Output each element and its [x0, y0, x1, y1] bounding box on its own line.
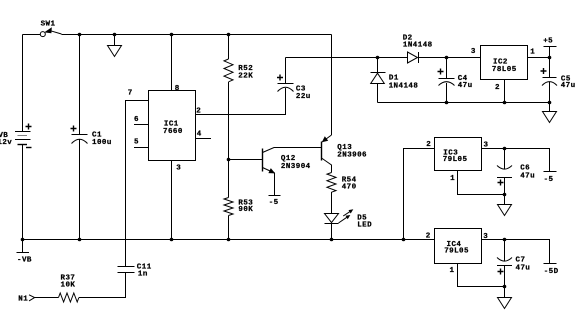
- capacitor C1 100u: [71, 35, 112, 240]
- pin 6 IC1: [134, 116, 149, 124]
- switch SW1: [23, 21, 62, 37]
- svg-text:1: 1: [530, 48, 535, 56]
- svg-text:1: 1: [450, 267, 455, 275]
- node N1 terminal: [18, 295, 34, 304]
- supply -5 at Q12 emitter: [269, 196, 281, 208]
- pin 1 IC2: [528, 48, 550, 57]
- node dot R53 bottom: [227, 238, 231, 242]
- node dot C5 bottom: [548, 101, 552, 105]
- op-amp IC4 79L05: [435, 229, 482, 264]
- svg-text:2N3906: 2N3906: [337, 152, 367, 160]
- svg-text:22K: 22K: [238, 72, 253, 80]
- svg-text:79L05: 79L05: [444, 247, 469, 255]
- resistor R54 470: [327, 173, 357, 214]
- capacitor C5 47u: [541, 58, 576, 103]
- node dot ground tap: [113, 33, 117, 37]
- pin 8 IC1: [172, 35, 180, 93]
- ground under IC4: [498, 287, 512, 309]
- supply -5 right: [544, 172, 557, 185]
- svg-text:D1: D1: [389, 75, 399, 83]
- supply -5D: [544, 264, 559, 277]
- svg-text:47u: 47u: [458, 82, 473, 90]
- svg-text:7: 7: [128, 90, 133, 98]
- node dot C4 top: [445, 56, 449, 60]
- node dot C1 top: [78, 33, 82, 37]
- node dot IC1 pin3 bottom: [170, 238, 174, 242]
- pin 1 IC3: [450, 171, 504, 195]
- ground under C5: [543, 103, 557, 123]
- ground under IC3: [498, 195, 512, 216]
- capacitor C11 1n: [79, 264, 152, 298]
- svg-text:47u: 47u: [520, 172, 535, 180]
- pin 3 IC3 wire: [482, 141, 550, 171]
- svg-text:2N3904: 2N3904: [281, 163, 311, 171]
- pin 4 IC1: [196, 131, 212, 139]
- svg-text:Q13: Q13: [337, 144, 352, 152]
- node dot IC3 pin2 rail: [402, 238, 406, 242]
- svg-text:3: 3: [484, 141, 489, 149]
- capacitor C4 47u: [438, 58, 473, 103]
- node dot D1/D2: [376, 56, 380, 60]
- svg-text:100u: 100u: [92, 139, 112, 147]
- pin 2 IC2: [495, 80, 505, 103]
- svg-text:5: 5: [134, 139, 139, 147]
- node dot C6 bottom: [503, 193, 507, 197]
- svg-text:-5D: -5D: [544, 268, 559, 276]
- wire ground rail under regulators: [378, 102, 550, 104]
- supply -VB: [17, 240, 32, 265]
- node dot battery bottom: [21, 238, 25, 242]
- capacitor C7 47u: [497, 240, 530, 287]
- diode D1 1N4148: [371, 58, 419, 103]
- pin 3 IC4 wire: [482, 233, 550, 263]
- svg-text:10K: 10K: [61, 281, 76, 289]
- svg-text:47u: 47u: [561, 82, 576, 90]
- svg-text:6: 6: [134, 116, 139, 124]
- node dot R52 top: [227, 33, 231, 37]
- svg-text:12v: 12v: [0, 139, 12, 147]
- svg-text:3: 3: [176, 165, 181, 173]
- svg-text:1: 1: [450, 175, 455, 183]
- svg-text:2: 2: [426, 141, 431, 149]
- op-amp IC2 78L05: [481, 46, 528, 80]
- node dot IC2 pin2 ground: [503, 101, 507, 105]
- node dot D5 bottom: [330, 238, 334, 242]
- svg-text:470: 470: [342, 184, 357, 192]
- pin 3 IC1 wire to -VB rail: [172, 161, 182, 240]
- svg-text:3: 3: [483, 233, 488, 241]
- svg-text:1N4148: 1N4148: [389, 82, 419, 90]
- svg-text:1n: 1n: [138, 271, 148, 279]
- transistor Q12 2N3904: [229, 148, 322, 196]
- pin 2 IC3 wire to -VB rail: [404, 141, 435, 240]
- svg-text:22u: 22u: [296, 93, 311, 101]
- svg-text:78L05: 78L05: [492, 66, 517, 74]
- svg-text:2: 2: [495, 84, 500, 92]
- svg-text:N1: N1: [18, 296, 28, 304]
- node dot C6 top: [503, 147, 507, 151]
- resistor R52 22K: [224, 35, 253, 160]
- node dot R52/R53/Q12 base: [227, 158, 231, 162]
- svg-text:-5: -5: [269, 199, 279, 207]
- ground top: [108, 35, 122, 57]
- svg-text:LED: LED: [357, 222, 372, 230]
- resistor R53 90K: [224, 160, 253, 240]
- svg-text:+5: +5: [543, 37, 553, 45]
- svg-text:-5: -5: [544, 176, 554, 184]
- pin 2 IC1 wire to C3: [196, 88, 286, 116]
- node dot +5/C5: [548, 56, 552, 60]
- wire -VB rail: [23, 239, 435, 241]
- svg-text:C7: C7: [516, 257, 526, 265]
- svg-text:8: 8: [175, 85, 180, 93]
- svg-text:-VB: -VB: [17, 257, 32, 265]
- node dot C7 bottom: [503, 285, 507, 289]
- svg-text:2: 2: [196, 108, 201, 116]
- pin 5 IC1: [134, 139, 149, 148]
- svg-text:47u: 47u: [516, 265, 531, 273]
- op-amp IC1 7660: [149, 91, 196, 161]
- battery VB 12v: [0, 35, 32, 240]
- node dot IC1 pin8: [170, 33, 174, 37]
- svg-text:90K: 90K: [238, 206, 253, 214]
- node dot C4 bottom: [445, 101, 449, 105]
- svg-text:SW1: SW1: [41, 21, 56, 29]
- svg-text:1N4148: 1N4148: [403, 42, 433, 50]
- resistor R37 10K: [35, 275, 79, 303]
- LED D5: [325, 209, 373, 239]
- wire +VB top rail: [62, 34, 332, 36]
- node dot C7 top: [503, 238, 507, 242]
- svg-text:79L05: 79L05: [443, 156, 468, 164]
- svg-text:3: 3: [471, 48, 476, 56]
- wire C3 to diodes: [286, 57, 408, 59]
- svg-text:7660: 7660: [163, 128, 183, 136]
- svg-text:Q12: Q12: [281, 155, 296, 163]
- pin 1 IC4: [450, 264, 505, 287]
- transistor Q13 2N3906: [322, 35, 368, 173]
- capacitor C6 47u: [497, 149, 535, 195]
- supply +5: [543, 37, 556, 57]
- capacitor C3 22u: [277, 58, 311, 101]
- node dot C1 bottom: [78, 238, 82, 242]
- op-amp IC3 79L05: [435, 138, 482, 171]
- pin 7 IC1: [126, 90, 149, 267]
- diode D2 1N4148: [403, 35, 481, 64]
- svg-text:4: 4: [197, 131, 202, 139]
